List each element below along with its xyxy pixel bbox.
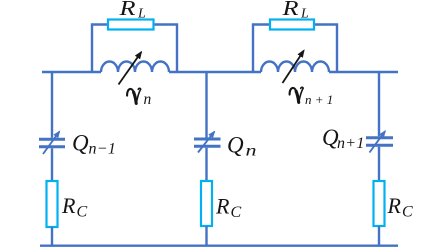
wire top rail right segment xyxy=(329,71,398,73)
svg-text:C: C xyxy=(402,204,413,221)
wire RL loop 2 xyxy=(253,25,337,73)
capacitor Qn+1 (variable) xyxy=(366,131,393,152)
resistor RL box 1 xyxy=(108,20,154,30)
svg-text:C: C xyxy=(231,204,242,221)
svg-text:R: R xyxy=(387,193,402,218)
wire middle branch lower xyxy=(205,226,207,246)
resistor RL box 2 xyxy=(270,20,314,30)
svg-text:R: R xyxy=(61,193,76,218)
wire right branch lower xyxy=(378,226,380,246)
svg-text:R: R xyxy=(281,0,298,20)
wire bottom rail xyxy=(40,244,398,246)
arrow through inductor Ln+1 xyxy=(283,51,304,83)
inductor Ln+1 (variable) xyxy=(261,62,329,73)
resistor RC box middle xyxy=(201,181,212,226)
svg-text:L: L xyxy=(300,7,309,22)
wire RL loop 1 xyxy=(92,25,177,73)
wire top rail left segment xyxy=(42,71,101,73)
wire middle branch upper xyxy=(205,72,207,138)
svg-text:R: R xyxy=(215,194,230,219)
svg-text:n: n xyxy=(246,143,257,160)
svg-text:C: C xyxy=(77,204,88,221)
arrow through inductor Ln xyxy=(119,52,142,84)
label Vn+1 (script V) xyxy=(290,87,304,102)
svg-text:L: L xyxy=(137,7,146,22)
svg-text:n + 1: n + 1 xyxy=(305,92,333,107)
wire middle branch middle xyxy=(205,148,207,181)
svg-text:Q: Q xyxy=(72,131,89,156)
wire left branch upper xyxy=(51,72,53,138)
resistor RC box right xyxy=(374,181,385,226)
wire right branch middle xyxy=(378,147,380,181)
inductor Ln (variable) xyxy=(101,62,169,73)
capacitor Qn-1 (variable) xyxy=(39,132,65,154)
capacitor Qn (variable) xyxy=(194,132,221,153)
wire left branch lower xyxy=(51,227,53,246)
svg-text:Q: Q xyxy=(227,133,244,158)
wire left branch middle xyxy=(51,148,53,181)
svg-text:R: R xyxy=(118,0,135,20)
wire top rail middle segment xyxy=(169,71,261,73)
wire right branch upper xyxy=(378,72,380,136)
label Vn (script V) xyxy=(127,88,141,103)
svg-text:n: n xyxy=(144,91,152,108)
svg-text:n−1: n−1 xyxy=(89,141,117,158)
svg-text:n+1: n+1 xyxy=(337,135,365,152)
resistor RC box left xyxy=(47,181,58,227)
